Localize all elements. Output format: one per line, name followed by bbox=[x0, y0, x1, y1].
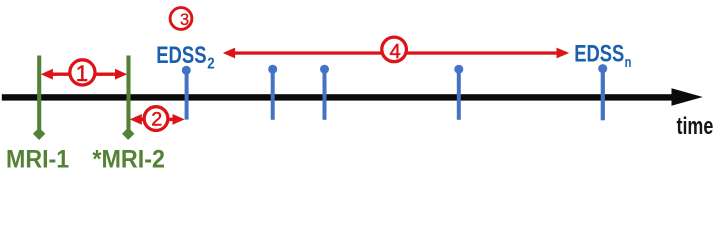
interval arrow 1 (MRI-1 to MRI-2) bbox=[41, 69, 127, 80]
svg-text:EDSS: EDSS bbox=[156, 42, 206, 69]
MRI-2 diamond bbox=[122, 128, 134, 140]
MRI-1 label bbox=[6, 146, 69, 174]
circle badge 4 bbox=[382, 37, 407, 63]
svg-text:4: 4 bbox=[389, 41, 400, 63]
MRI-2 event line bbox=[126, 56, 130, 131]
svg-text:*MRI-2: *MRI-2 bbox=[92, 146, 165, 174]
EDSS2 event line bbox=[185, 69, 189, 120]
interval arrow 4 (EDSS2 to EDSSn) bbox=[223, 48, 569, 59]
circle badge 2 bbox=[144, 107, 168, 131]
MRI-1 event line bbox=[37, 56, 41, 131]
svg-text:EDSS: EDSS bbox=[574, 41, 624, 68]
MRI-2 label bbox=[92, 146, 165, 174]
svg-text:3: 3 bbox=[180, 11, 189, 29]
svg-text:2: 2 bbox=[207, 56, 214, 73]
EDSSn dot bbox=[598, 64, 607, 73]
timeline axis bbox=[2, 88, 703, 106]
MRI-1 diamond bbox=[33, 128, 45, 140]
circle badge 1 bbox=[70, 60, 95, 86]
svg-text:n: n bbox=[625, 55, 632, 71]
EDSS2 label bbox=[156, 42, 214, 73]
time label bbox=[677, 113, 714, 140]
EDSS2 dot bbox=[182, 66, 191, 75]
svg-text:2: 2 bbox=[151, 109, 162, 131]
visit tick 1 bbox=[268, 65, 277, 120]
svg-text:MRI-1: MRI-1 bbox=[6, 146, 69, 174]
circle badge 3 bbox=[170, 8, 192, 30]
visit tick 3 bbox=[454, 65, 463, 120]
interval arrow 2 (MRI-2 to EDSS2) bbox=[130, 114, 185, 125]
svg-text:time: time bbox=[677, 113, 714, 140]
EDSSn event line bbox=[601, 69, 605, 121]
visit tick 2 bbox=[320, 65, 329, 120]
svg-text:1: 1 bbox=[76, 61, 88, 86]
EDSSn label bbox=[574, 41, 631, 72]
